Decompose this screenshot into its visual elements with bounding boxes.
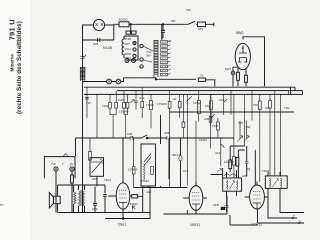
svg-text:A99: A99 — [92, 207, 98, 211]
svg-text:A9: A9 — [247, 167, 251, 171]
svg-text:A32: A32 — [219, 98, 225, 102]
svg-text:17W06: 17W06 — [157, 102, 167, 106]
svg-text:5W1: 5W1 — [225, 67, 232, 71]
svg-text:TDs: TDs — [284, 106, 290, 110]
svg-text:A97: A97 — [92, 177, 98, 181]
svg-text:5W7: 5W7 — [125, 42, 131, 46]
svg-text:Minerva: Minerva — [10, 54, 15, 72]
svg-text:A41: A41 — [146, 190, 152, 194]
svg-text:A05: A05 — [164, 131, 170, 135]
svg-text:A1: A1 — [173, 97, 177, 101]
svg-text:TW42: TW42 — [141, 179, 149, 183]
svg-text:A32: A32 — [139, 96, 145, 100]
svg-text:T: T — [62, 162, 64, 166]
svg-text:VCL1: VCL1 — [125, 47, 132, 51]
svg-text:A12: A12 — [128, 210, 134, 214]
svg-text:A99: A99 — [242, 174, 248, 178]
svg-text:12W4: 12W4 — [199, 138, 207, 142]
svg-text:12W1: 12W1 — [193, 101, 201, 105]
svg-text:AC/DC: AC/DC — [119, 18, 129, 22]
svg-text:5W: 5W — [171, 19, 176, 23]
svg-text:A05: A05 — [204, 117, 210, 121]
svg-text:UBF11: UBF11 — [190, 223, 200, 227]
svg-text:17W0: 17W0 — [146, 103, 154, 107]
svg-text:NT: NT — [0, 203, 4, 207]
svg-text:TDs4: TDs4 — [104, 178, 111, 182]
svg-text:A12: A12 — [215, 151, 221, 155]
svg-text:5W42: 5W42 — [130, 202, 138, 206]
svg-text:12W43: 12W43 — [224, 160, 234, 164]
svg-text:30u: 30u — [265, 106, 270, 110]
svg-text:TDs: TDs — [253, 103, 259, 107]
svg-text:5W: 5W — [146, 54, 151, 58]
svg-text:UCH11: UCH11 — [251, 223, 262, 227]
svg-text:(rechte Seite des Schaltbildes: (rechte Seite des Schaltbildes) — [16, 21, 23, 114]
svg-text:CBL1: CBL1 — [118, 223, 127, 227]
svg-text:NL4B: NL4B — [103, 46, 113, 50]
svg-text:5W: 5W — [246, 125, 251, 129]
svg-text:5V0R: 5V0R — [125, 52, 132, 56]
svg-text:13W: 13W — [212, 124, 218, 128]
svg-text:VL4B: VL4B — [125, 37, 132, 41]
svg-text:TDs9: TDs9 — [262, 169, 269, 173]
svg-text:TW: TW — [86, 101, 91, 105]
svg-text:TW4: TW4 — [102, 104, 109, 108]
svg-text:A1B: A1B — [213, 203, 219, 207]
svg-text:13W42: 13W42 — [119, 110, 129, 114]
svg-text:5W0: 5W0 — [236, 31, 243, 35]
svg-text:A05: A05 — [127, 132, 133, 136]
svg-text:5P1: 5P1 — [198, 27, 204, 31]
svg-text:A05: A05 — [93, 42, 99, 46]
svg-text:13W: 13W — [118, 98, 124, 102]
svg-text:10x: 10x — [205, 104, 210, 108]
svg-text:TW: TW — [238, 121, 243, 125]
svg-text:Rc: Rc — [70, 162, 74, 166]
svg-text:TW: TW — [186, 8, 191, 12]
svg-text:TW: TW — [51, 162, 56, 166]
svg-text:12W43: 12W43 — [91, 160, 101, 164]
svg-text:A12: A12 — [183, 169, 189, 173]
svg-text:Y1: Y1 — [200, 74, 204, 78]
svg-text:13W43: 13W43 — [128, 168, 138, 172]
svg-text:30u13: 30u13 — [172, 153, 181, 157]
